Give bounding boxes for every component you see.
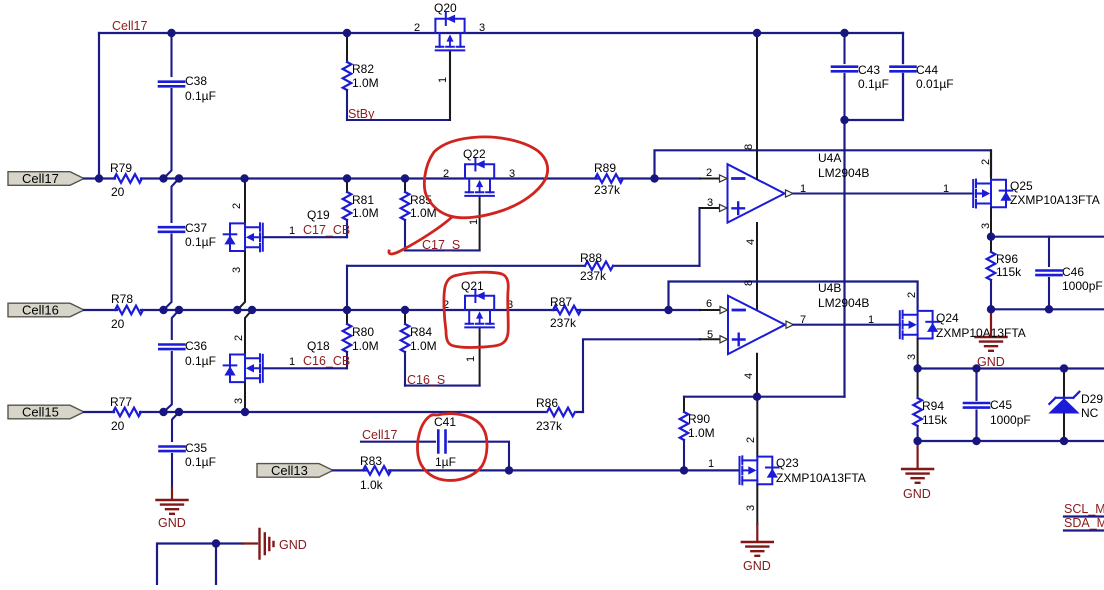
- svg-text:C35: C35: [185, 441, 207, 455]
- wire U4B feedback to Q24: [669, 282, 918, 311]
- capacitor C46: [1037, 237, 1103, 310]
- svg-text:R87: R87: [550, 295, 572, 309]
- resistor R77: [110, 395, 141, 433]
- svg-text:SCL_M: SCL_M: [1064, 502, 1104, 516]
- wire C16_S loop: [405, 385, 480, 387]
- node junction Cell15 row / Q18 pin3: [241, 408, 249, 416]
- svg-text:1.0M: 1.0M: [352, 339, 379, 353]
- svg-text:Q19: Q19: [307, 208, 330, 222]
- svg-text:R96: R96: [996, 252, 1018, 266]
- node junction Q25 pin3 row: [987, 233, 995, 241]
- transistor Q25: [943, 150, 1100, 236]
- annotation red circle around Q22: [424, 137, 547, 218]
- wire C16_CB gate wire: [263, 367, 347, 369]
- resistor R81: [343, 179, 379, 238]
- svg-text:Cell17: Cell17: [362, 428, 397, 442]
- svg-text:StBy: StBy: [348, 107, 375, 121]
- wire Cell17 row: [84, 177, 700, 179]
- wire Q24 drain row: [918, 367, 1104, 369]
- svg-text:6: 6: [706, 298, 712, 310]
- capacitor C45: [964, 369, 1031, 442]
- capacitor C43: [832, 33, 889, 120]
- capacitor chain vertical C38/C37/C36/C35: [170, 33, 172, 76]
- node junction Cell17 row / R81: [343, 174, 351, 182]
- svg-text:0.1µF: 0.1µF: [185, 354, 216, 368]
- op-amp U4A: [706, 144, 869, 245]
- svg-text:237k: 237k: [550, 316, 577, 330]
- node junction GND row / C45: [972, 437, 980, 445]
- wire C43 bottom vertical down to pin4 rail: [843, 120, 845, 397]
- node junction top rail / C38: [167, 29, 175, 37]
- wire C17_CB gate wire: [263, 236, 347, 238]
- svg-text:2: 2: [906, 292, 918, 298]
- svg-text:C17_S: C17_S: [422, 238, 460, 252]
- wire R96/C46 bottom row: [991, 308, 1104, 310]
- svg-text:2: 2: [414, 22, 420, 34]
- transistor Q19: [224, 179, 330, 311]
- resistor R83: [360, 454, 391, 492]
- ground below R96: [976, 309, 1007, 369]
- node junction Q24 pin3 / R94: [913, 364, 921, 372]
- wire U4B pin5 net: [583, 339, 700, 412]
- node junction Q24 row / C45: [972, 364, 980, 372]
- node junction R96 bottom: [987, 305, 995, 313]
- svg-text:115k: 115k: [922, 413, 948, 427]
- node junction C41 / R83 row: [505, 466, 513, 474]
- svg-text:R80: R80: [352, 325, 374, 339]
- svg-text:D29: D29: [1081, 392, 1103, 406]
- resistor R86: [536, 396, 575, 433]
- port Cell17: [8, 171, 84, 186]
- node junction Cell17 row / U4A feedback: [650, 174, 658, 182]
- svg-text:2: 2: [233, 335, 245, 341]
- capacitor C44: [891, 40, 954, 115]
- svg-text:NC: NC: [1081, 406, 1099, 420]
- svg-text:3: 3: [479, 22, 485, 34]
- svg-text:C17_CB: C17_CB: [303, 223, 350, 237]
- svg-text:C41: C41: [434, 415, 456, 429]
- svg-text:Q25: Q25: [1010, 179, 1033, 193]
- resistor R84: [401, 310, 437, 386]
- svg-text:R86: R86: [536, 396, 558, 410]
- wire chain jog below Cell15 row: [172, 412, 179, 441]
- annotation red circle around Q21: [444, 272, 508, 347]
- wire op-amp power column: [756, 33, 758, 397]
- svg-text:3: 3: [745, 505, 757, 511]
- svg-text:1000pF: 1000pF: [1062, 279, 1103, 293]
- wire SDA_M stub: [1064, 529, 1104, 531]
- node junction Cell17 port / left vertical: [95, 174, 103, 182]
- svg-text:GND: GND: [279, 538, 307, 552]
- svg-text:R79: R79: [110, 161, 132, 175]
- svg-text:0.1µF: 0.1µF: [185, 455, 216, 469]
- svg-text:R88: R88: [580, 251, 602, 265]
- capacitor C37: [159, 221, 216, 310]
- svg-text:R83: R83: [360, 454, 382, 468]
- svg-text:4: 4: [745, 239, 757, 245]
- resistor R96: [987, 237, 1022, 310]
- resistor R90: [680, 397, 715, 471]
- svg-text:R82: R82: [352, 62, 374, 76]
- wire chain jog below Cell17 row: [172, 179, 180, 223]
- annotation red circle around C41: [418, 414, 488, 481]
- node junction Cell17 row / C38 chain: [159, 174, 167, 182]
- transistor Q24: [868, 292, 1026, 369]
- svg-text:Q21: Q21: [461, 279, 484, 293]
- svg-text:C44: C44: [916, 63, 938, 77]
- svg-text:Cell17: Cell17: [22, 171, 59, 186]
- wire U4B pin6 stub: [700, 309, 719, 311]
- svg-text:Q23: Q23: [776, 456, 799, 470]
- svg-text:3: 3: [509, 168, 515, 180]
- capacitor C38: [159, 74, 216, 179]
- port Cell13: [257, 463, 333, 478]
- svg-text:20: 20: [111, 185, 125, 199]
- annotation red tail below Q22 circle: [389, 217, 452, 254]
- svg-text:0.1µF: 0.1µF: [185, 89, 216, 103]
- svg-text:Cell13: Cell13: [271, 463, 308, 478]
- capacitor C35: [160, 441, 216, 488]
- resistor R87: [550, 295, 581, 330]
- ground below R94: [902, 441, 933, 501]
- svg-text:U4A: U4A: [818, 151, 841, 165]
- svg-text:2: 2: [706, 167, 712, 179]
- node junction R94 bottom / GND row: [913, 437, 921, 445]
- svg-text:R94: R94: [922, 399, 944, 413]
- svg-text:1: 1: [289, 356, 295, 368]
- wire U4A output to Q25 gate: [793, 192, 973, 194]
- svg-text:GND: GND: [743, 559, 771, 573]
- node junction Cell16 row / R80: [343, 306, 351, 314]
- node junction top rail / C43: [840, 29, 848, 37]
- svg-text:GND: GND: [903, 487, 931, 501]
- resistor R94: [913, 369, 948, 442]
- svg-text:C36: C36: [185, 339, 207, 353]
- svg-text:SDA_M: SDA_M: [1064, 516, 1104, 530]
- node junction top rail / R82: [343, 29, 351, 37]
- svg-text:1: 1: [437, 77, 449, 83]
- svg-text:Q22: Q22: [463, 147, 486, 161]
- svg-text:115k: 115k: [996, 265, 1022, 279]
- svg-text:C46: C46: [1062, 265, 1084, 279]
- resistor R89: [594, 161, 623, 197]
- wire bottom right row: [918, 440, 1104, 442]
- svg-text:20: 20: [111, 419, 125, 433]
- ground below Q23: [742, 524, 773, 573]
- node junction R90 / Q23 gate row: [680, 466, 688, 474]
- wire SCL_M stub: [1064, 515, 1104, 517]
- svg-text:C37: C37: [185, 221, 207, 235]
- svg-text:Q18: Q18: [307, 339, 330, 353]
- svg-text:1.0M: 1.0M: [352, 206, 379, 220]
- svg-text:1.0M: 1.0M: [352, 76, 379, 90]
- svg-text:2: 2: [443, 168, 449, 180]
- svg-text:GND: GND: [158, 516, 186, 530]
- wire Q25 source row: [991, 236, 1104, 238]
- wire Cell13 row to Q23 gate: [333, 469, 738, 471]
- svg-text:1000pF: 1000pF: [990, 413, 1031, 427]
- svg-text:20: 20: [111, 317, 125, 331]
- node junction Q24 row / D29: [1060, 364, 1068, 372]
- node junction Cell16 row / U4B feedback: [664, 306, 672, 314]
- svg-text:R90: R90: [688, 412, 710, 426]
- svg-text:1.0M: 1.0M: [410, 206, 437, 220]
- wire left vertical from top rail to Cell17 row: [98, 33, 100, 179]
- svg-text:R77: R77: [110, 395, 132, 409]
- svg-text:ZXMP10A13FTA: ZXMP10A13FTA: [1010, 193, 1100, 207]
- capacitor C36: [159, 339, 216, 412]
- resistor R85: [401, 179, 437, 251]
- wire U4A feedback to Q25: [655, 150, 992, 178]
- svg-text:8: 8: [743, 280, 755, 286]
- svg-text:Cell16: Cell16: [22, 303, 59, 318]
- wire pin4 rail: [684, 396, 845, 398]
- resistor R80: [343, 310, 379, 368]
- svg-text:2: 2: [745, 437, 757, 443]
- node junction C46 bottom: [1045, 305, 1053, 313]
- wire C44 right loop: [845, 33, 904, 120]
- svg-text:1µF: 1µF: [435, 455, 456, 469]
- svg-text:3: 3: [233, 398, 245, 404]
- port Cell15: [8, 405, 84, 420]
- svg-text:1.0M: 1.0M: [410, 339, 437, 353]
- svg-text:C16_CB: C16_CB: [303, 354, 350, 368]
- resistor R78: [111, 292, 143, 331]
- wire U4B output to Q24 gate: [794, 324, 900, 326]
- svg-text:ZXMP10A13FTA: ZXMP10A13FTA: [776, 471, 866, 485]
- svg-text:C16_S: C16_S: [407, 373, 445, 387]
- node junction Cell17 row / Q19 pin2: [240, 174, 248, 182]
- svg-text:Cell15: Cell15: [22, 405, 59, 420]
- op-amp U4B: [706, 280, 869, 379]
- ground below C35: [157, 488, 188, 530]
- svg-text:4: 4: [743, 373, 755, 379]
- node junction C43/C44 bottom: [840, 116, 848, 124]
- node junction Cell17 row / R85: [401, 174, 409, 182]
- resistor R88: [347, 251, 700, 310]
- transistor Q21: [443, 279, 513, 386]
- svg-text:GND: GND: [977, 355, 1005, 369]
- wire U4A pin2 stub: [700, 178, 719, 180]
- svg-text:LM2904B: LM2904B: [818, 166, 869, 180]
- svg-text:3: 3: [906, 354, 918, 360]
- wire U4A pin3 net from R88: [700, 208, 720, 266]
- svg-text:1: 1: [708, 458, 714, 470]
- node junction top rail / op-amp pin 8: [753, 29, 761, 37]
- svg-text:8: 8: [743, 144, 755, 150]
- resistor R82: [343, 33, 379, 120]
- wire top rail Cell17 net: [99, 32, 903, 34]
- wire C17_S loop: [405, 249, 480, 251]
- capacitor C41: [361, 415, 509, 470]
- svg-text:Q20: Q20: [434, 1, 457, 15]
- wire StBy loop to Q20 gate: [347, 52, 450, 120]
- svg-text:R89: R89: [594, 161, 616, 175]
- svg-text:1: 1: [868, 314, 874, 326]
- svg-text:R84: R84: [410, 325, 432, 339]
- svg-text:2: 2: [231, 203, 243, 209]
- svg-text:U4B: U4B: [818, 281, 841, 295]
- svg-text:0.1µF: 0.1µF: [858, 77, 889, 91]
- svg-text:ZXMP10A13FTA: ZXMP10A13FTA: [936, 326, 1026, 340]
- node junction Cell16 row / Q19 pin3 and Q18 pin2: [233, 306, 241, 314]
- ground flag bottom-left: [243, 529, 307, 559]
- svg-text:R78: R78: [111, 292, 133, 306]
- svg-text:3: 3: [980, 223, 992, 229]
- svg-text:1: 1: [943, 183, 949, 195]
- svg-text:237k: 237k: [580, 269, 607, 283]
- wire Cell15 row: [84, 411, 583, 413]
- node junction Cell16 row / R84: [401, 306, 409, 314]
- transistor Q18: [224, 310, 330, 412]
- node junction Cell16 row / cap chain: [159, 306, 167, 314]
- svg-text:LM2904B: LM2904B: [818, 296, 869, 310]
- port Cell16: [8, 303, 84, 318]
- node junction bottom-left box: [212, 539, 220, 547]
- svg-text:Q24: Q24: [936, 311, 959, 325]
- svg-text:237k: 237k: [536, 419, 563, 433]
- svg-text:3: 3: [231, 267, 243, 273]
- transistor Q22: [443, 147, 515, 250]
- transistor Q23: [708, 397, 866, 524]
- transistor Q20: [414, 1, 485, 120]
- svg-text:Cell17: Cell17: [112, 19, 147, 33]
- svg-text:5: 5: [707, 329, 713, 341]
- svg-text:1: 1: [465, 356, 477, 362]
- svg-text:237k: 237k: [594, 183, 621, 197]
- svg-text:C43: C43: [858, 63, 880, 77]
- svg-text:1.0k: 1.0k: [360, 478, 384, 492]
- wire bottom-left box: [157, 544, 243, 586]
- wire Cell16 row: [84, 309, 700, 311]
- resistor R79: [110, 161, 142, 199]
- diode D29: [1048, 369, 1103, 442]
- svg-text:C38: C38: [185, 74, 207, 88]
- svg-text:1: 1: [289, 225, 295, 237]
- svg-text:R81: R81: [352, 193, 374, 207]
- svg-text:1.0M: 1.0M: [688, 426, 715, 440]
- svg-text:0.1µF: 0.1µF: [185, 235, 216, 249]
- wire chain jog below Cell16 row: [172, 310, 179, 339]
- node junction Cell15 row / cap chain: [159, 408, 167, 416]
- svg-text:3: 3: [707, 197, 713, 209]
- svg-text:C45: C45: [990, 398, 1012, 412]
- node junction GND row / D29: [1060, 437, 1068, 445]
- svg-text:2: 2: [980, 159, 992, 165]
- node junction op-amp pin4 rail / Q23 pin2: [753, 393, 761, 401]
- svg-text:1: 1: [468, 219, 480, 225]
- svg-text:0.01µF: 0.01µF: [916, 77, 954, 91]
